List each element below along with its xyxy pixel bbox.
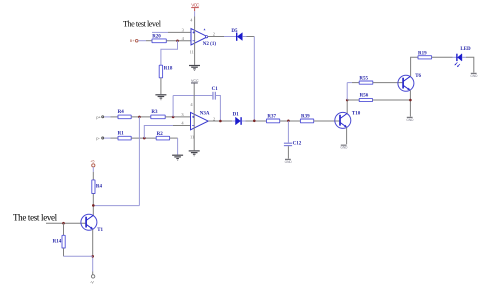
svg-text:N2 (1): N2 (1) xyxy=(203,42,217,47)
svg-text:-V: -V xyxy=(90,280,94,284)
node D junction xyxy=(253,120,256,123)
node E junction xyxy=(287,120,290,123)
svg-text:D1: D1 xyxy=(233,113,240,118)
wire port to R20 xyxy=(138,40,146,42)
node G junction xyxy=(409,99,412,102)
wire port to R1 xyxy=(104,137,111,139)
wire LED to GND xyxy=(462,56,466,58)
svg-text:GND: GND xyxy=(340,146,348,150)
resistor R14 xyxy=(63,223,65,235)
resistor R1 xyxy=(118,136,131,140)
resistor R20 xyxy=(152,39,166,43)
svg-text:N3A: N3A xyxy=(200,111,210,116)
wire op-amp1 output to D5 xyxy=(208,36,224,38)
wire R19 to LED xyxy=(432,56,453,58)
wire D1 to node D xyxy=(242,120,246,122)
svg-text:GND: GND xyxy=(285,160,293,164)
node B junction xyxy=(172,116,175,119)
resistor R55 xyxy=(359,81,373,84)
GND power port under T10 xyxy=(340,145,348,150)
svg-text:GND: GND xyxy=(470,74,478,78)
feedback wire to C1 xyxy=(173,95,212,97)
svg-text:11: 11 xyxy=(190,135,194,140)
wire R37 to node E xyxy=(280,120,301,122)
node A junction xyxy=(138,116,141,119)
svg-text:VCC: VCC xyxy=(191,3,200,8)
svg-text:R2: R2 xyxy=(157,132,164,137)
wire R39 to T10 base xyxy=(314,120,340,122)
svg-text:+5: +5 xyxy=(90,159,94,163)
wire node F up to R55 row xyxy=(346,83,348,100)
node F junction xyxy=(346,99,349,102)
svg-text:R20: R20 xyxy=(152,34,161,39)
svg-text:The test level: The test level xyxy=(13,213,58,223)
svg-text:R3: R3 xyxy=(151,110,158,115)
wire T1 emitter down xyxy=(92,229,94,256)
svg-text:C1: C1 xyxy=(212,87,219,92)
transistor T10 xyxy=(335,112,361,129)
wire R55 to T6 base xyxy=(373,82,403,84)
svg-text:T10: T10 xyxy=(352,112,361,117)
svg-text:p+: p+ xyxy=(96,115,101,119)
capacitor C12 xyxy=(284,143,292,144)
GND power port right of LED xyxy=(470,73,478,78)
wire R56 to T6 emitter node xyxy=(373,99,411,101)
svg-text:R37: R37 xyxy=(267,114,276,119)
wire corner to R55 xyxy=(347,82,352,84)
wire corner down to D1 output node xyxy=(253,37,255,121)
-V power port below T1 xyxy=(91,275,94,278)
op-amp U2 (comparator N2) xyxy=(191,29,208,45)
wire R20 to junction xyxy=(166,40,190,42)
svg-text:R4: R4 xyxy=(118,110,125,115)
wire port to R4 xyxy=(104,116,111,118)
GND power port under C12 xyxy=(285,159,293,164)
node J junction xyxy=(91,255,94,258)
svg-text:LED: LED xyxy=(460,47,471,52)
transistor T1 xyxy=(81,214,104,233)
resistor R4 (input) xyxy=(118,115,131,119)
svg-text:R56: R56 xyxy=(360,94,369,99)
node C junction xyxy=(143,137,146,140)
resistor R39 xyxy=(300,119,313,123)
wire node C up to op-amp pin4 xyxy=(144,126,173,139)
svg-text:T6: T6 xyxy=(415,74,421,79)
wire T10 collector up xyxy=(346,100,348,113)
wire R1 to junction C xyxy=(131,137,156,139)
svg-text:T1: T1 xyxy=(97,228,103,233)
wire T6 collector up to R19 row xyxy=(411,57,418,76)
ground under R18 xyxy=(155,94,166,100)
wire node E down to C12 xyxy=(287,121,289,143)
resistor R3 xyxy=(151,115,165,119)
svg-text:R19: R19 xyxy=(418,51,427,56)
svg-text:C12: C12 xyxy=(293,142,302,147)
resistor R37 xyxy=(267,119,280,123)
wire R2 to ground xyxy=(170,137,178,139)
op-amp N3A xyxy=(191,112,209,129)
wire node A down to T1 collector row xyxy=(138,117,140,206)
wire node F to R56 xyxy=(347,99,359,101)
junction at op-amp1 inverting input xyxy=(176,40,179,43)
wire VCC to op-amp1 xyxy=(194,11,196,16)
wire R14 to node J xyxy=(63,248,65,256)
wire net top to op-amp pin3 xyxy=(152,31,168,33)
GND power port under T6 xyxy=(406,117,414,122)
wire across to T1 collector junction xyxy=(93,205,139,207)
wire R4 to junction A xyxy=(131,116,151,118)
wire R4 to node H xyxy=(92,194,94,216)
svg-text:R4: R4 xyxy=(96,185,103,190)
resistor R56 xyxy=(359,98,372,101)
wire node B up to feedback xyxy=(172,96,174,117)
wire port to R4 xyxy=(92,167,94,172)
wire N3A output to D1 xyxy=(208,120,232,122)
wire R3 to op-amp pin3 xyxy=(165,116,190,118)
node H junction xyxy=(92,204,95,207)
wire junction down to R18 xyxy=(161,41,178,65)
svg-text:R18: R18 xyxy=(164,67,173,72)
wire R18 to ground xyxy=(160,78,162,94)
svg-text:GND: GND xyxy=(406,118,414,122)
pin A mark xyxy=(204,28,206,30)
wire C12 to GND xyxy=(287,146,289,158)
svg-text:R14: R14 xyxy=(53,239,62,244)
svg-text:R39: R39 xyxy=(301,114,310,119)
resistor R4 (collector) xyxy=(92,180,95,194)
ground under R2 xyxy=(172,155,183,161)
node I junction xyxy=(62,222,65,225)
wire C1 to output node xyxy=(216,96,220,122)
output node junction xyxy=(219,120,222,123)
transistor T6 xyxy=(398,74,422,91)
resistor R2 xyxy=(156,136,169,140)
ground under op-amp1 xyxy=(189,65,200,71)
ground under N3A xyxy=(189,150,200,156)
svg-text:R1: R1 xyxy=(118,132,125,137)
wire D5 to corner xyxy=(242,36,246,38)
resistor R18 xyxy=(159,65,162,78)
svg-text:R55: R55 xyxy=(359,76,368,81)
wire T6 emitter down xyxy=(409,90,411,116)
svg-text:B+: B+ xyxy=(130,39,136,43)
svg-text:The test level: The test level xyxy=(123,19,162,28)
svg-text:2: 2 xyxy=(213,31,215,36)
wire T10 emitter down xyxy=(346,127,348,144)
resistor R19 xyxy=(418,56,432,59)
svg-text:11: 11 xyxy=(190,49,194,54)
wire net to T1 base xyxy=(46,222,86,224)
